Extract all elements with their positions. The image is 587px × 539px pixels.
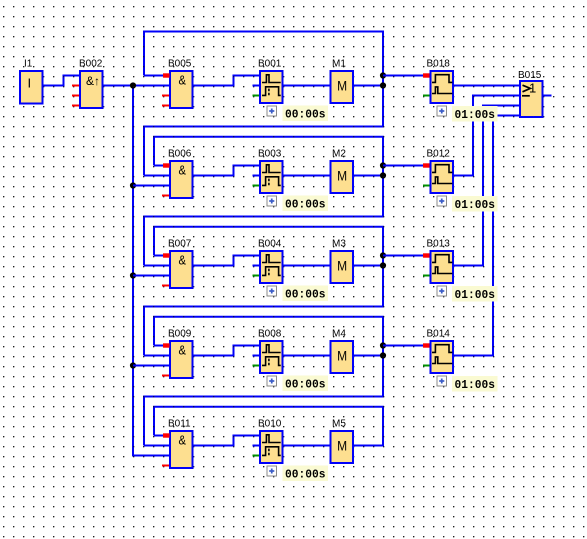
- node bus junction row3: [130, 272, 136, 278]
- parameter stub B010 (green): [253, 455, 260, 457]
- pulse relay B008: [260, 341, 283, 373]
- svg-text:B013: B013: [427, 239, 451, 250]
- wire junction to timer In1 (row1): [383, 75, 430, 77]
- svg-text:M5: M5: [332, 419, 346, 430]
- wire AND output to pulse block Trg (row3): [194, 255, 260, 267]
- wire pulse block output to M3 input: [284, 265, 330, 267]
- svg-text:00:00s: 00:00s: [285, 108, 326, 122]
- unconnected input stub B006.In4 (red): [162, 195, 169, 197]
- node junction row4 lower: [380, 352, 386, 358]
- svg-text:01:00s: 01:00s: [455, 378, 496, 392]
- wire AND output to pulse block Trg (row4): [194, 345, 260, 357]
- connected-input marker B011.In1 (red): [163, 433, 170, 437]
- wire row2 self-hold (inner loop) into AND In1: [153, 137, 384, 218]
- parameter expand button B012: [437, 196, 447, 206]
- svg-text:M3: M3: [332, 239, 346, 250]
- wire B018.out to B015.In1: [454, 85, 519, 87]
- node bus junction row2: [130, 182, 136, 188]
- connected-input marker B007.In1 (red): [163, 253, 170, 257]
- wire M1 output to junction column: [354, 85, 384, 87]
- off-delay timer B012: [431, 161, 454, 193]
- AND gate B007: [170, 251, 193, 288]
- stub B001.In2 (blue): [253, 85, 260, 87]
- svg-text:I1: I1: [24, 59, 33, 70]
- connected-input marker B012.In1 (red): [423, 163, 430, 167]
- AND gate B011: [170, 431, 193, 468]
- wire pulse block output to M4 input: [284, 355, 330, 357]
- parameter stub B008 (green): [253, 365, 260, 367]
- wire junction to timer In1 (row4): [383, 345, 430, 347]
- output marker block M4: [331, 341, 354, 373]
- wire bus to B009.In3: [133, 365, 169, 367]
- parameter expand button B001: [267, 106, 277, 116]
- svg-text:B011: B011: [168, 419, 191, 430]
- wire row3 self-hold (inner loop) into AND In1: [153, 227, 384, 308]
- svg-text:&: &: [179, 432, 187, 447]
- wire B002.out to B005.In2 (bus tap): [104, 85, 170, 87]
- parameter expand button B013: [437, 286, 447, 296]
- unconnected input stub B007.In4 (red): [162, 285, 169, 287]
- parameter expand button B010: [267, 466, 277, 476]
- svg-text:B015: B015: [518, 70, 542, 81]
- wire B013.out up to B015.In3: [454, 105, 519, 267]
- output marker block M3: [331, 251, 354, 283]
- svg-text:01:00s: 01:00s: [455, 108, 496, 122]
- wire junction to timer In1 (row2): [383, 165, 430, 167]
- wire AND output to pulse block Trg (row2): [194, 165, 260, 177]
- time value label B012 01:00s: [452, 196, 498, 212]
- stub B008.In2 (blue): [253, 355, 260, 357]
- time value label B001 00:00s: [283, 106, 329, 122]
- svg-text:B004: B004: [258, 239, 282, 250]
- AND gate B009: [170, 341, 193, 378]
- svg-text:B001: B001: [258, 59, 282, 70]
- node bus junction row4: [130, 362, 136, 368]
- parameter stub B001 (green): [253, 95, 260, 97]
- connected-input marker B018.In1 (red): [423, 73, 430, 77]
- parameter expand button B008: [267, 376, 277, 386]
- svg-text:M: M: [337, 79, 347, 94]
- connected-input marker B013.In1 (red): [423, 253, 430, 257]
- svg-text:B012: B012: [427, 149, 451, 160]
- svg-text:&: &: [179, 252, 187, 267]
- node junction row2 lower: [380, 172, 386, 178]
- svg-text:1: 1: [529, 81, 536, 96]
- parameter expand button B018: [437, 106, 447, 116]
- svg-text:M1: M1: [332, 59, 346, 70]
- wire row1 feedback loop from node M1 to B005.In1: [143, 31, 384, 127]
- parameter expand button B004: [267, 286, 277, 296]
- svg-text:00:00s: 00:00s: [285, 468, 326, 482]
- wire M3 output to junction column: [354, 265, 384, 267]
- wire B015 output stub: [544, 95, 552, 97]
- time value label B018 01:00s: [452, 106, 498, 122]
- svg-text:B018: B018: [427, 59, 451, 70]
- svg-text:B005: B005: [168, 59, 192, 70]
- svg-text:01:00s: 01:00s: [455, 288, 496, 302]
- parameter stub B003 (green): [253, 185, 260, 187]
- wire vertical bus from B002 output down to row5: [132, 86, 134, 456]
- time value label B008 00:00s: [283, 376, 329, 392]
- wire B012.out up to B015.In2: [454, 95, 519, 177]
- svg-text:&: &: [179, 162, 187, 177]
- parameter stub B012 (green): [423, 185, 430, 187]
- wire bus to B007.In3: [133, 275, 169, 277]
- wire M4 output to junction column: [354, 355, 384, 357]
- wire row4 self-hold (inner loop) into AND In1: [153, 317, 384, 398]
- OR gate B015: [520, 81, 543, 118]
- parameter expand button B014: [437, 376, 447, 386]
- pulse relay B010: [260, 431, 283, 463]
- connected-input marker B009.In1 (red): [163, 343, 170, 347]
- connected-input marker B005.In1 (red): [163, 73, 170, 77]
- svg-text:B010: B010: [258, 419, 282, 430]
- svg-text:B014: B014: [427, 329, 451, 340]
- parameter expand button B003: [267, 196, 277, 206]
- time value label B010 00:00s: [283, 466, 329, 482]
- svg-text:M: M: [337, 259, 347, 274]
- wire pulse block output to M1 input: [284, 85, 330, 87]
- edge-triggered AND gate B002: [80, 71, 103, 108]
- parameter stub B018 (green): [423, 95, 430, 97]
- wire AND output to pulse block Trg (row1): [194, 75, 260, 87]
- node junction row1 lower: [380, 82, 386, 88]
- node bus junction row1: [130, 82, 136, 88]
- node junction row3 lower: [380, 262, 386, 268]
- svg-text:00:00s: 00:00s: [285, 198, 326, 212]
- svg-text:00:00s: 00:00s: [285, 288, 326, 302]
- wire row4 node to row5 enable (outer loop) into AND In2: [143, 397, 384, 446]
- wire junction to timer In1 (row3): [383, 255, 430, 257]
- time value label B014 01:00s: [452, 376, 498, 392]
- off-delay timer B014: [431, 341, 454, 373]
- svg-text:M: M: [337, 169, 347, 184]
- off-delay timer B018: [431, 71, 454, 103]
- svg-text:B009: B009: [168, 329, 192, 340]
- node junction row3 upper: [380, 252, 386, 258]
- connected-input marker B014.In1 (red): [423, 343, 430, 347]
- unconnected input stub B009.In4 (red): [162, 375, 169, 377]
- time value label B003 00:00s: [283, 196, 329, 212]
- pulse relay B003: [260, 161, 283, 193]
- svg-text:&: &: [179, 342, 187, 357]
- off-delay timer B013: [431, 251, 454, 283]
- output marker block M5: [331, 431, 354, 463]
- svg-text:00:00s: 00:00s: [285, 378, 326, 392]
- svg-text:M: M: [337, 439, 347, 454]
- stub B010.In2 (blue): [253, 445, 260, 447]
- output marker block M1: [331, 71, 354, 103]
- wire B014.out up to B015.In4: [454, 115, 519, 357]
- wire row2 node to row3 enable (outer loop) into AND In2: [143, 217, 384, 266]
- svg-text:M2: M2: [332, 149, 346, 160]
- svg-text:&↑: &↑: [86, 74, 100, 88]
- node junction row4 upper: [380, 342, 386, 348]
- wire row5 self-hold (inner loop) into AND In1: [153, 407, 384, 447]
- time value label B013 01:00s: [452, 286, 498, 302]
- svg-text:&: &: [179, 72, 187, 87]
- wire row1 node to row2 enable (outer loop) into AND In2: [143, 127, 384, 176]
- svg-text:B003: B003: [258, 149, 282, 160]
- pulse relay B004: [260, 251, 283, 283]
- svg-text:I: I: [27, 76, 31, 91]
- svg-text:B002: B002: [79, 59, 103, 70]
- parameter stub B013 (green): [423, 275, 430, 277]
- wire M5 output to junction column: [354, 445, 384, 447]
- unconnected input stubs B005 In3 In4 (red): [162, 96, 169, 106]
- AND gate B006: [170, 161, 193, 198]
- node junction row1 upper: [380, 72, 386, 78]
- connected-input marker B006.In1 (red): [163, 163, 170, 167]
- unconnected input stub B011.In4 (red): [162, 465, 169, 467]
- svg-text:M4: M4: [332, 329, 346, 340]
- wire pulse block output to M2 input: [284, 175, 330, 177]
- stub B004.In2 (blue): [253, 265, 260, 267]
- svg-text:B008: B008: [258, 329, 282, 340]
- node junction row2 upper: [380, 162, 386, 168]
- wire M2 output to junction column: [354, 175, 384, 177]
- svg-text:01:00s: 01:00s: [455, 198, 496, 212]
- time value label B004 00:00s: [283, 286, 329, 302]
- wire I1.out to B002.In1: [44, 75, 80, 87]
- wire row3 node to row4 enable (outer loop) into AND In2: [143, 307, 384, 356]
- output marker block M2: [331, 161, 354, 193]
- wire bus to B011.In3: [132, 455, 169, 457]
- wire pulse block output to M5 input: [284, 445, 330, 447]
- svg-text:B006: B006: [168, 149, 192, 160]
- parameter stub B014 (green): [423, 365, 430, 367]
- input block I1: [20, 71, 43, 104]
- wire bus to B006.In3: [133, 185, 169, 187]
- AND gate B005: [170, 71, 193, 108]
- stub B003.In2 (blue): [253, 175, 260, 177]
- svg-text:B007: B007: [168, 239, 192, 250]
- parameter stub B004 (green): [253, 275, 260, 277]
- wire AND output to pulse block Trg (row5): [194, 435, 260, 447]
- unconnected input stubs B002 (red): [72, 86, 79, 106]
- pulse relay B001: [260, 71, 283, 103]
- svg-text:M: M: [337, 349, 347, 364]
